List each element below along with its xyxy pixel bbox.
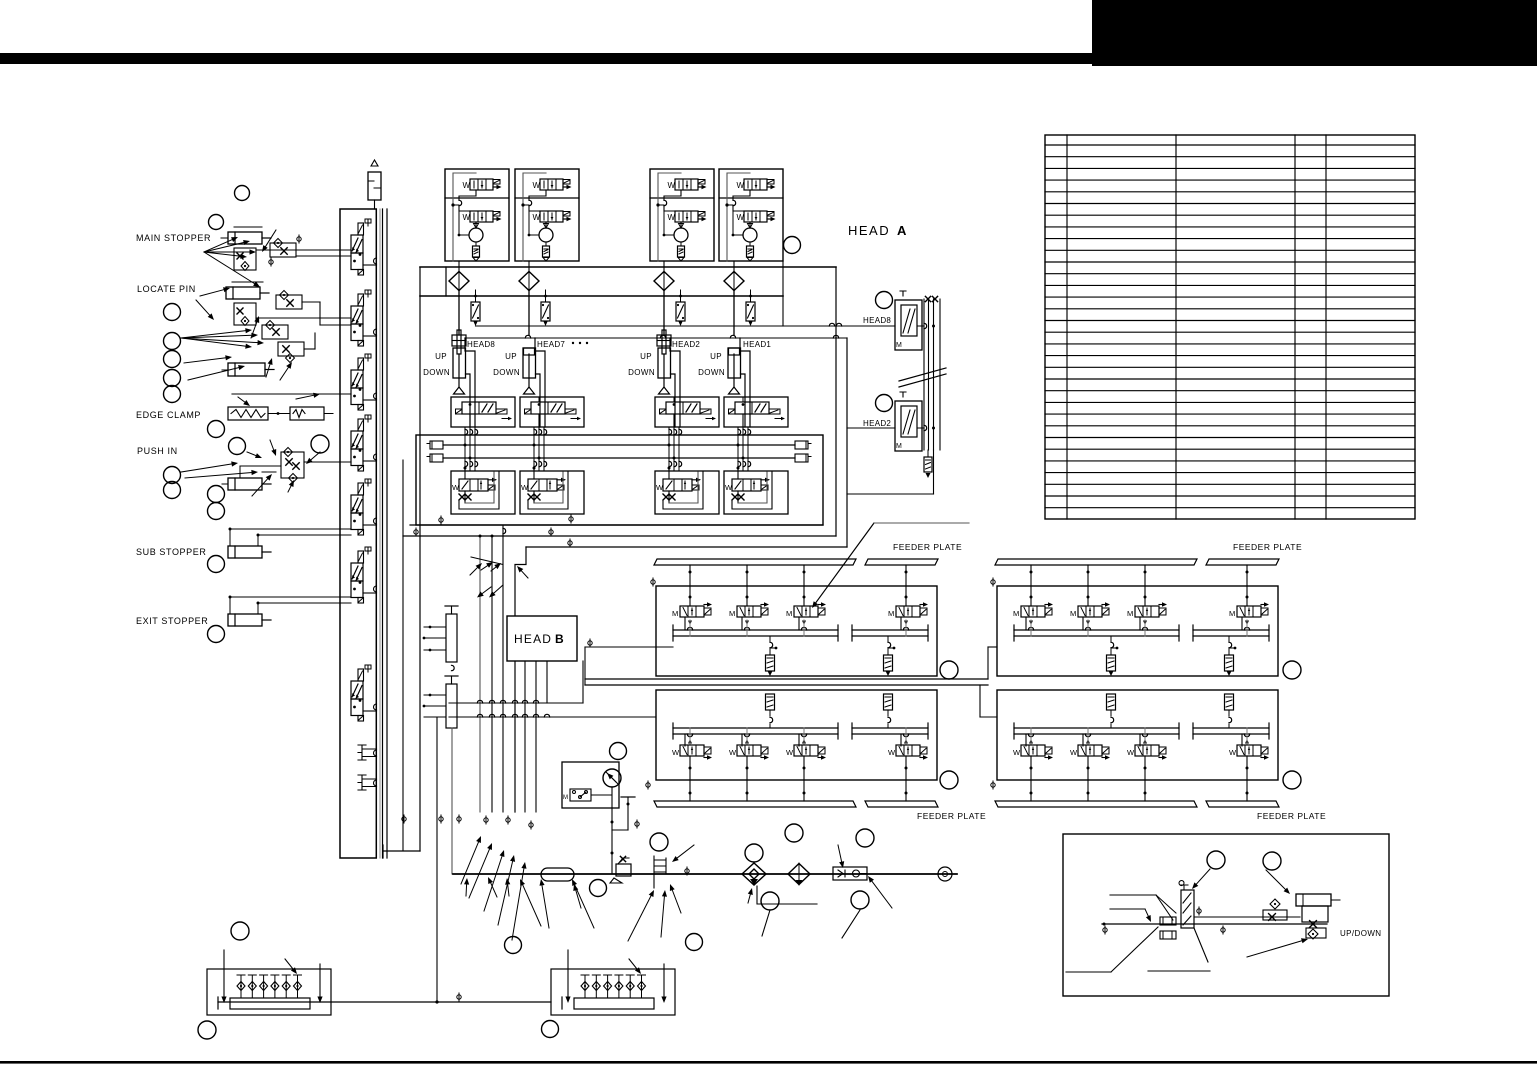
HEAD8 valve box (895, 300, 922, 350)
callout polylines (757, 886, 817, 904)
solenoid return valve box (655, 471, 719, 514)
diagonal callout to feeder valve (816, 523, 874, 603)
locate pin flow control 3 (278, 342, 304, 356)
third cylinder (228, 363, 265, 376)
svg-text:W: W (533, 213, 541, 222)
push in arrows (181, 464, 232, 472)
check valve diamond (654, 272, 674, 291)
svg-text:DOWN: DOWN (423, 368, 450, 377)
wire link to rail (363, 710, 377, 712)
bus plug right 2 (795, 454, 808, 462)
check valve diamond (724, 272, 744, 291)
comb gauge (654, 856, 666, 888)
silencer riser (766, 694, 775, 710)
sub stopper cylinder (228, 546, 262, 558)
feeder solenoid valve (1135, 606, 1159, 617)
svg-text:PUSH IN: PUSH IN (137, 446, 178, 456)
wire stem (1142, 734, 1147, 737)
feeder lower valve box (656, 690, 937, 780)
pin (240, 975, 242, 998)
arrows main stopper (204, 240, 232, 252)
svg-text:M: M (1127, 609, 1133, 618)
wire link to rail (363, 335, 377, 337)
wire stem (1144, 565, 1146, 606)
bus plug right 1 (795, 441, 808, 449)
manifold pilot valve 4 (358, 419, 364, 431)
svg-text:W: W (1229, 748, 1237, 757)
wire stem (1028, 734, 1033, 737)
wire stem (1244, 734, 1249, 737)
arrows locate pin (200, 290, 224, 296)
pin (595, 975, 597, 998)
svg-text:UP: UP (710, 352, 722, 361)
svg-text:W: W (786, 748, 794, 757)
svg-text:EDGE CLAMP: EDGE CLAMP (136, 410, 201, 420)
svg-text:W: W (533, 181, 541, 190)
feeder solenoid valve (1135, 745, 1159, 756)
rail bump (374, 258, 377, 264)
silencer drop 2 (1229, 642, 1232, 647)
feeder solenoid valve (737, 745, 761, 756)
throttle X marks (528, 494, 534, 500)
wire lower feeder supply (655, 690, 657, 717)
svg-text:UP/DOWN: UP/DOWN (1340, 929, 1381, 938)
pin (641, 975, 643, 998)
wire lower long 1 (410, 524, 823, 526)
bundle end arrows (461, 842, 479, 884)
svg-text:W: W (463, 213, 471, 222)
mini manifold strip 2 (446, 684, 457, 728)
svg-text:W: W (737, 181, 745, 190)
wire link to rail (363, 399, 377, 401)
head cylinder (662, 330, 666, 354)
silencer (545, 242, 547, 246)
check diamond right (1308, 929, 1318, 939)
feeder solenoid valve (896, 606, 920, 617)
fuse element top (368, 172, 381, 200)
bottom bus wire (218, 1001, 551, 1003)
push in cylinder (228, 478, 262, 490)
wire to valve (465, 338, 475, 427)
svg-text:HEAD2: HEAD2 (672, 340, 700, 349)
feeder solenoid valve (1021, 606, 1045, 617)
rod (663, 354, 665, 387)
manifold column outer (340, 209, 376, 858)
pressure gauge circle callout (610, 743, 627, 760)
manifold pilot valve 6 (358, 551, 364, 563)
svg-text:FEEDER PLATE: FEEDER PLATE (1233, 542, 1302, 552)
regulator (616, 864, 631, 876)
callout circle (164, 482, 181, 499)
wire (733, 190, 750, 200)
pressure switch box (562, 762, 619, 808)
pin (263, 975, 265, 998)
pin (274, 975, 276, 998)
feeder solenoid valve (1237, 606, 1261, 617)
svg-text:UP: UP (505, 352, 517, 361)
wires below switch box (611, 787, 613, 874)
solenoid valve bottom (470, 211, 493, 222)
wires (668, 466, 670, 479)
wire to valve (740, 338, 750, 427)
svg-text:LOCATE PIN: LOCATE PIN (137, 284, 196, 294)
wavy wires across bus (737, 427, 739, 470)
arrows to comb (628, 896, 651, 941)
wire stem (905, 565, 907, 606)
wire band left (419, 268, 421, 851)
wire to valve (535, 338, 545, 427)
rail bump (374, 454, 377, 460)
left inlet blocks (1160, 917, 1176, 925)
wire stem (744, 734, 749, 737)
arrow diag (285, 959, 293, 969)
regulator circle (743, 228, 757, 242)
wire elbow (383, 850, 420, 852)
rail bump (374, 518, 377, 524)
svg-text:UP: UP (640, 352, 652, 361)
wires locate pin (256, 317, 351, 319)
solenoid return valve box (724, 471, 788, 514)
wire link to rail (363, 264, 377, 266)
HEAD B box (507, 616, 577, 661)
wave joints (924, 323, 927, 328)
wire elbow (515, 547, 526, 812)
wires (533, 466, 535, 479)
inline valve (680, 290, 682, 302)
pilot valve (735, 402, 769, 414)
wires (737, 466, 739, 479)
silencer (475, 242, 477, 246)
vertical pilot valve (1179, 881, 1188, 890)
bus box (416, 435, 823, 525)
arrow down left (567, 950, 569, 997)
wires into box (673, 414, 675, 427)
throttle X marks (459, 494, 465, 500)
wire feedback (658, 173, 681, 261)
wire stem (687, 734, 692, 737)
pilot valve (666, 402, 700, 414)
svg-text:W: W (1013, 748, 1021, 757)
pin (584, 975, 586, 998)
wire stem (801, 734, 806, 737)
exit stopper wires (230, 596, 351, 598)
manifold pilot valve 3 (358, 358, 364, 370)
svg-text:HEAD: HEAD (848, 223, 890, 238)
head cylinder (524, 348, 535, 355)
callout circle (208, 486, 225, 503)
valve rail 2 (852, 629, 928, 631)
svg-text:FEEDER PLATE: FEEDER PLATE (893, 542, 962, 552)
hatch tail callout (1148, 970, 1210, 972)
pin (297, 975, 299, 998)
bus risers (436, 717, 438, 1002)
cross bus 2 (449, 716, 656, 718)
wire (475, 222, 477, 226)
wire stem (1085, 734, 1090, 737)
svg-text:M: M (888, 609, 894, 618)
svg-text:HEAD8: HEAD8 (467, 340, 495, 349)
svg-text:DOWN: DOWN (698, 368, 725, 377)
svg-text:HEAD7: HEAD7 (537, 340, 565, 349)
feeder circles (940, 661, 958, 679)
wire stem (733, 290, 735, 335)
arrow diag (629, 959, 637, 969)
parts table (1045, 135, 1415, 519)
bus line 1 (443, 444, 795, 446)
rail bump (374, 586, 377, 592)
svg-text:W: W (452, 483, 460, 492)
svg-text:DOWN: DOWN (493, 368, 520, 377)
svg-text:A: A (897, 223, 908, 238)
inline valve (750, 290, 752, 302)
head cylinder (729, 348, 740, 355)
svg-text:DOWN: DOWN (628, 368, 655, 377)
wire link to rail (363, 460, 377, 462)
locate pin flow control 2 (262, 325, 288, 339)
blanking bracket (358, 775, 377, 790)
locate pin valve block (234, 303, 256, 325)
head valve group box (719, 169, 783, 261)
wire feedback (523, 173, 546, 261)
wires into box (742, 414, 744, 427)
svg-text:W: W (668, 213, 676, 222)
solenoid valve (459, 479, 488, 491)
solenoid return valve box (451, 471, 515, 514)
arrow down left (223, 950, 225, 997)
svg-text:SUB STOPPER: SUB STOPPER (136, 547, 206, 557)
wavy wires across bus (533, 427, 535, 470)
svg-text:FEEDER PLATE: FEEDER PLATE (917, 811, 986, 821)
speed controller diamond (1270, 899, 1280, 909)
feeder solenoid valve (1078, 606, 1102, 617)
gauge (603, 769, 621, 787)
bus tick (217, 997, 219, 1009)
silencer drop (1111, 642, 1114, 647)
edge clamp spring actuator (228, 407, 268, 420)
wire (733, 261, 735, 272)
feeder solenoid valve (794, 745, 818, 756)
inline valve (475, 290, 477, 302)
pilot valve (531, 402, 565, 414)
rail bump (374, 329, 377, 335)
upper line (1194, 916, 1300, 918)
callout circle (235, 186, 250, 201)
callout circle (876, 395, 893, 412)
svg-text:M: M (896, 342, 902, 349)
svg-text:EXIT STOPPER: EXIT STOPPER (136, 616, 208, 626)
header bar (0, 53, 1092, 64)
wire stem (689, 565, 691, 606)
svg-text:M: M (1070, 609, 1076, 618)
filter diamond 2 (788, 864, 810, 885)
callout circle head A (784, 237, 801, 254)
push in flow control assembly (281, 452, 304, 478)
valve rail 2 (852, 727, 928, 729)
callout circle (164, 304, 181, 321)
svg-text:W: W (463, 181, 471, 190)
solenoid valve (528, 479, 557, 491)
wire (458, 261, 460, 272)
arrow down right (663, 964, 665, 997)
svg-text:HEAD: HEAD (514, 632, 552, 646)
bus plug left 1 (430, 441, 443, 449)
wire to valve (670, 338, 680, 427)
wire (402, 460, 404, 851)
wire stem (1246, 565, 1248, 606)
HEAD2 valve box (895, 401, 922, 451)
wire stem (1030, 565, 1032, 606)
feeder plate bar (654, 559, 856, 565)
head valve group box (445, 169, 509, 261)
wire stem (803, 565, 805, 606)
wire lower long 2 (403, 535, 836, 537)
air line oval (541, 868, 574, 881)
callout circle (164, 386, 181, 403)
air arrows (838, 845, 842, 862)
pilot line to HEAD2 valve (465, 337, 847, 339)
edge clamp cylinder (290, 407, 324, 420)
callout circle (208, 626, 225, 643)
solenoid valve top (744, 179, 767, 190)
svg-text:FEEDER PLATE: FEEDER PLATE (1257, 811, 1326, 821)
feeder mid bus 1 (585, 678, 988, 680)
svg-text:W: W (729, 748, 737, 757)
wires main stopper (256, 249, 351, 251)
svg-text:W: W (888, 748, 896, 757)
callout circles bottom (650, 833, 668, 851)
manifold bar (574, 998, 654, 1009)
check valve (833, 867, 867, 880)
blanking bracket (358, 745, 377, 760)
pin (285, 975, 287, 998)
callout circle (208, 421, 225, 438)
HEAD B drops (524, 661, 526, 812)
silencer drop 2 (888, 642, 891, 647)
pilot line to HEAD8 valve (782, 261, 784, 326)
wire (459, 190, 476, 200)
bus plug left 2 (430, 454, 443, 462)
solenoid valve (663, 479, 692, 491)
solenoid valve bottom (744, 211, 767, 222)
feeder right riser (987, 647, 989, 679)
feeder solenoid valve (794, 606, 818, 617)
wires (464, 466, 466, 479)
rod (733, 354, 735, 387)
wire stem (663, 290, 665, 335)
feeder solenoid valve (680, 606, 704, 617)
regulator circle (539, 228, 553, 242)
svg-text:HEAD8: HEAD8 (863, 316, 891, 325)
wire link to rail (363, 524, 377, 526)
valve rail 2 (1193, 727, 1269, 729)
feeder lower valve box (997, 690, 1278, 780)
pilot valve box (724, 397, 788, 427)
svg-text:W: W (668, 181, 676, 190)
wire feedback (453, 173, 476, 261)
wire (680, 222, 682, 226)
callout circle (229, 438, 246, 455)
svg-text:W: W (521, 483, 529, 492)
wavy wires across bus (464, 427, 466, 470)
silencer below (927, 450, 929, 457)
feeder plate bar bottom (654, 801, 856, 807)
feeder solenoid valve (680, 745, 704, 756)
gray line (874, 522, 969, 524)
regulator circle (674, 228, 688, 242)
X valve right (1310, 921, 1317, 928)
sub stopper wires (230, 528, 351, 530)
exit stopper cylinder (228, 614, 262, 626)
wire (749, 222, 751, 226)
solenoid valve top (470, 179, 493, 190)
wires into box (469, 414, 471, 427)
supply line to feeders (585, 646, 673, 648)
solenoid valve bottom (540, 211, 563, 222)
svg-text:W: W (672, 748, 680, 757)
mini manifold strip 1 (446, 614, 457, 662)
feeder solenoid valve (1237, 745, 1261, 756)
svg-text:MAIN STOPPER: MAIN STOPPER (136, 233, 211, 243)
wire stem (746, 565, 748, 606)
valve rail (1014, 727, 1179, 729)
callout circle (876, 292, 893, 309)
head valve group box (650, 169, 714, 261)
svg-text:HEAD1: HEAD1 (743, 340, 771, 349)
wire right riser (835, 268, 837, 536)
solenoid valve top (540, 179, 563, 190)
cylinder top right (1296, 894, 1331, 906)
callout circle (208, 503, 225, 520)
svg-text:M: M (786, 609, 792, 618)
manifold pilot valve 1 (358, 223, 364, 235)
long vertical from mid (452, 538, 454, 560)
callout circle (1207, 851, 1225, 869)
main stopper flow control (270, 243, 296, 257)
pilot valve box (520, 397, 584, 427)
rod (458, 354, 460, 387)
svg-text:W: W (1127, 748, 1135, 757)
silencer (680, 242, 682, 246)
wire feedback (727, 173, 750, 261)
head supply band (420, 266, 836, 268)
hatch tail (1194, 928, 1208, 962)
locate pin cylinder (226, 287, 260, 299)
rail bump (374, 704, 377, 710)
feeder mid bus 2 (585, 684, 988, 686)
gray drop line (451, 728, 453, 874)
pilot valve box (451, 397, 515, 427)
feeder solenoid valve (1021, 745, 1045, 756)
callout circle (164, 351, 181, 368)
feeder upper valve box (997, 586, 1278, 676)
solenoid valve (732, 479, 761, 491)
silencer riser 2 (1225, 694, 1234, 710)
svg-text:W: W (737, 213, 745, 222)
callout circle (164, 370, 181, 387)
main stopper cylinder (228, 232, 262, 244)
valve rail (1014, 629, 1179, 631)
header block (1092, 0, 1537, 66)
wire stem (458, 290, 460, 335)
wave (452, 665, 455, 670)
callout circle (1263, 852, 1281, 870)
vertical rails (923, 299, 925, 450)
silencer drop (770, 642, 773, 647)
inline valve (545, 290, 547, 302)
callout circle (209, 215, 224, 230)
wire (664, 190, 681, 200)
feeder upper valve box (656, 586, 937, 676)
